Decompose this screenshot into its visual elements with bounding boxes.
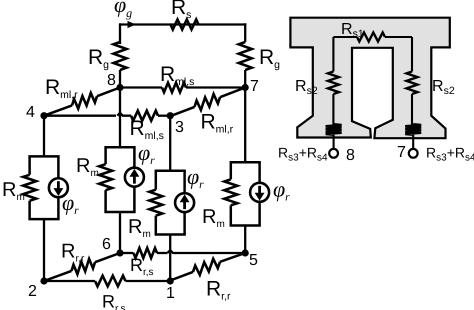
wire branch3-1 upper lead bbox=[169, 116, 171, 171]
resistor Rs1 bbox=[357, 33, 385, 42]
svg-text:Rml,s: Rml,s bbox=[160, 63, 194, 88]
wire node2-node1 with resistor Rr,s bbox=[44, 280, 95, 282]
svg-text:8: 8 bbox=[107, 72, 116, 89]
svg-text:Rr,r: Rr,r bbox=[206, 278, 231, 303]
svg-text:Rr,r: Rr,r bbox=[61, 241, 85, 265]
wire gate right vertical bbox=[244, 23, 246, 42]
svg-text:3: 3 bbox=[175, 119, 184, 136]
node 6 bbox=[116, 249, 123, 256]
current source phi_r branch4-2 bbox=[49, 178, 68, 197]
svg-text:Rm: Rm bbox=[2, 179, 25, 203]
wire branch7-5 upper lead bbox=[244, 88, 246, 163]
svg-text:Rm: Rm bbox=[202, 206, 225, 230]
resistor Rs2 right bbox=[407, 72, 418, 95]
resistor Rm branch8-6 bbox=[99, 164, 112, 190]
resistor Rm branch7-5 bbox=[224, 179, 237, 205]
svg-text:Rs: Rs bbox=[171, 0, 191, 21]
resistor Rs2 left bbox=[328, 72, 339, 95]
wire branch7-5 lower lead bbox=[244, 226, 246, 254]
current source phi_r branch7-5 bbox=[250, 183, 269, 202]
current source phi_r branch8-6 bbox=[125, 168, 144, 187]
svg-text:6: 6 bbox=[102, 236, 111, 253]
wire Rg right to node 7 bbox=[244, 70, 246, 88]
stator core gray shape bbox=[290, 18, 449, 139]
wire gate left vertical (node phi_g to R_g) bbox=[119, 23, 121, 44]
wire Rg left to node 8 bbox=[119, 70, 121, 88]
current arrow on gate wire bbox=[128, 21, 137, 28]
svg-text:Rs2: Rs2 bbox=[432, 78, 455, 97]
branch box branch7-5: Rm parallel source bbox=[230, 161, 261, 164]
wire node4-node3 with hop over vertical bbox=[44, 115, 116, 117]
current source phi_r branch3-1 bbox=[175, 193, 194, 212]
node 7 bbox=[242, 84, 249, 91]
wire left leg lower bbox=[332, 94, 334, 125]
svg-text:5: 5 bbox=[249, 252, 258, 269]
branch box branch3-1: Rm parallel source bbox=[155, 170, 186, 173]
diagonal wire node4-node8 with resistor Rml,r bbox=[44, 105, 72, 115]
wire left leg upper bbox=[332, 37, 334, 72]
wire node6-node5 with resistor Rr,s and hop bbox=[120, 252, 134, 254]
branch box branch4-2: Rm parallel source bbox=[28, 155, 59, 158]
node 8 bbox=[116, 84, 123, 91]
svg-text:1: 1 bbox=[166, 285, 175, 302]
resistor Rml,s top bbox=[162, 83, 186, 93]
node 1 bbox=[167, 277, 174, 284]
node 4 bbox=[40, 112, 47, 119]
svg-text:Rg: Rg bbox=[88, 46, 109, 71]
wire branch4-2 upper lead bbox=[43, 116, 45, 157]
svg-text:2: 2 bbox=[28, 283, 37, 300]
svg-text:Rr,s: Rr,s bbox=[102, 292, 126, 310]
wire to terminal 7 bbox=[412, 135, 414, 149]
resistor Rs3+Rs4 left (compact) bbox=[326, 124, 342, 135]
wire node8-node7 bbox=[120, 86, 162, 88]
svg-text:φr: φr bbox=[273, 177, 290, 204]
wire right leg upper bbox=[411, 37, 413, 72]
svg-text:7: 7 bbox=[250, 78, 259, 95]
branch box branch8-6: Rm parallel source bbox=[104, 146, 135, 149]
wire node2-node6 diagonal with resistor Rr,r bbox=[44, 271, 72, 281]
terminal node 8 bbox=[329, 149, 338, 158]
wire node1-node5 diagonal with resistor Rr,r bbox=[170, 272, 193, 281]
wire branch3-1 lower lead bbox=[169, 235, 171, 282]
wire to terminal 8 bbox=[333, 135, 335, 149]
svg-text:4: 4 bbox=[26, 104, 35, 121]
wire right leg lower bbox=[411, 94, 413, 125]
svg-text:Rg: Rg bbox=[259, 46, 280, 71]
resistor Rs3+Rs4 right (compact) bbox=[405, 124, 421, 135]
resistor Rm branch4-2 bbox=[23, 175, 36, 201]
svg-text:Rm: Rm bbox=[128, 216, 151, 240]
resistor Rml,s front bbox=[131, 111, 158, 121]
svg-text:Rml,s: Rml,s bbox=[130, 117, 164, 142]
svg-text:7: 7 bbox=[397, 144, 406, 161]
resistor Rm branch3-1 bbox=[149, 190, 162, 216]
wire branch8-6 upper lead bbox=[119, 88, 121, 148]
node 3 bbox=[167, 112, 174, 119]
diagonal wire node3-node7 with resistor Rml,r bbox=[170, 107, 194, 116]
wire branch8-6 lower lead bbox=[119, 212, 121, 253]
svg-text:φr: φr bbox=[187, 164, 204, 191]
svg-text:φr: φr bbox=[138, 140, 155, 167]
node 2 bbox=[40, 277, 47, 284]
wire gate top horizontal bbox=[120, 23, 246, 25]
svg-text:φg: φg bbox=[114, 0, 132, 20]
resistor Rs (gate series) bbox=[171, 20, 199, 30]
resistor Rg right bbox=[239, 42, 252, 70]
svg-text:Rml,r: Rml,r bbox=[45, 76, 78, 101]
wire Rs1 loop top bbox=[333, 36, 357, 38]
svg-text:Rs3+Rs4: Rs3+Rs4 bbox=[426, 145, 474, 164]
wire branch4-2 lower lead bbox=[43, 219, 45, 281]
svg-text:Rml,r: Rml,r bbox=[201, 111, 234, 136]
svg-text:Rm: Rm bbox=[76, 155, 99, 179]
node 5 bbox=[242, 249, 249, 256]
svg-text:φr: φr bbox=[62, 190, 79, 217]
svg-text:Rs3+Rs4: Rs3+Rs4 bbox=[278, 145, 328, 164]
resistor Rg left bbox=[114, 42, 127, 70]
terminal node 7 bbox=[409, 149, 418, 158]
svg-text:8: 8 bbox=[346, 147, 355, 164]
